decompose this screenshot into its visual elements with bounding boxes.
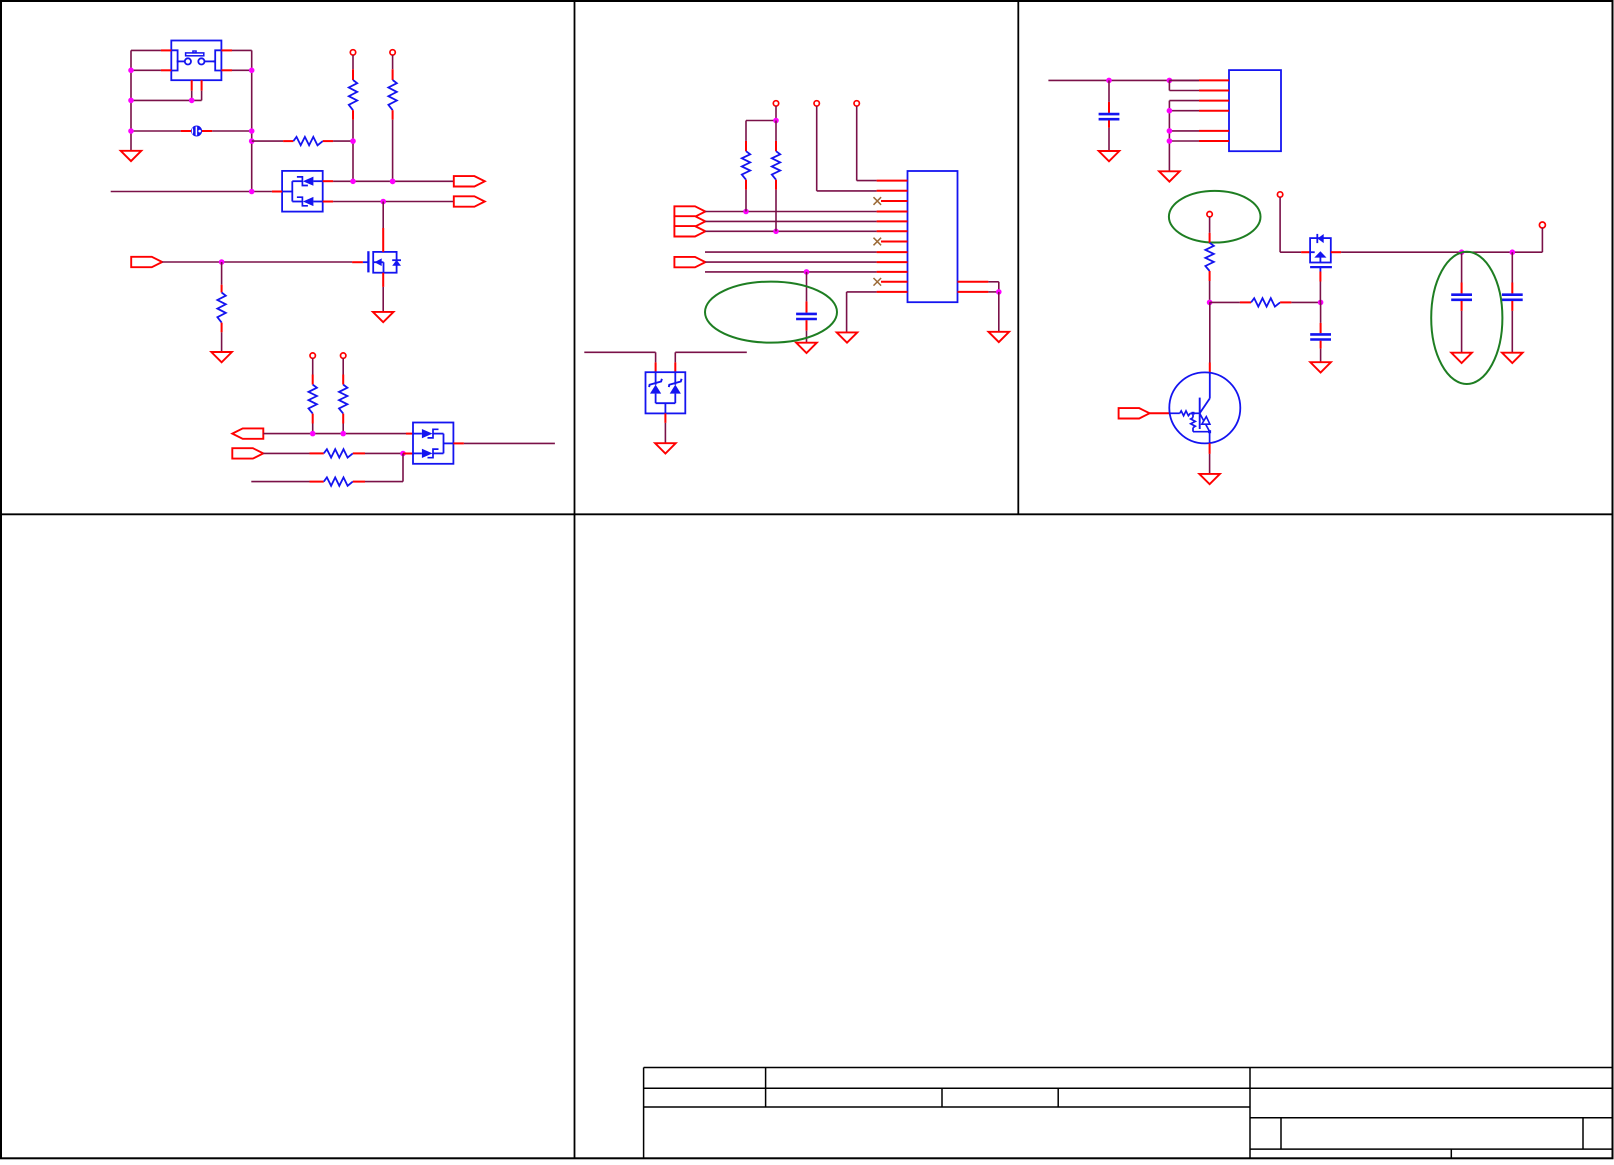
U2 left pins (877, 180, 908, 182)
port output B (454, 196, 485, 206)
wire net2 to U2 (817, 190, 877, 192)
wire Q2 out rail (1341, 251, 1542, 253)
port gate input (131, 257, 162, 267)
wire SW1 pin1 to left rail (131, 49, 161, 51)
junction (743, 209, 749, 215)
wire R8 left (251, 481, 309, 483)
port data1 (674, 206, 705, 216)
wire drop to R8 (402, 454, 404, 482)
ground (1502, 353, 1523, 363)
wire pin4 (1169, 110, 1199, 112)
capacitor C5 (1511, 252, 1513, 282)
wire net to D1 common (111, 191, 272, 193)
pin12 wire to ground (847, 291, 877, 293)
net port circle (1207, 212, 1212, 217)
dual zener diode D2 common-cathode (413, 423, 453, 464)
junction (249, 68, 255, 74)
net port circle (390, 50, 395, 55)
green highlight ellipse 3 (1431, 252, 1502, 384)
junction (1167, 128, 1173, 134)
junction (128, 98, 134, 104)
ground (1159, 171, 1180, 181)
junction (249, 128, 255, 134)
no-connect (874, 238, 882, 246)
no-connect (874, 197, 882, 205)
junction (1207, 300, 1213, 306)
junction (1167, 138, 1173, 144)
IC U3 (1229, 70, 1281, 151)
resistor R4 pull-down (221, 262, 223, 285)
junction (1167, 108, 1173, 114)
green highlight ellipse 2 (1169, 191, 1261, 243)
ground (837, 332, 858, 342)
junction (219, 259, 225, 265)
wire right rail vertical (251, 50, 253, 191)
junction (1167, 78, 1173, 84)
wire rail up to net (1541, 228, 1543, 253)
component B1 circle symbol (131, 130, 181, 132)
wire to R7 (263, 452, 309, 454)
junction (1510, 249, 1516, 255)
net port circle (350, 50, 355, 55)
net port circle (310, 353, 315, 358)
wire D3 right top (675, 351, 747, 353)
wire SW1 pin4 to right rail (232, 69, 252, 71)
wire R9 top jog (746, 120, 776, 122)
port data3 (674, 226, 705, 236)
wire D1 anode1 to port (333, 180, 454, 182)
junction (804, 269, 810, 275)
junction (350, 179, 356, 185)
junction (128, 68, 134, 74)
wire collector drop (1209, 302, 1211, 362)
net port circle (341, 353, 346, 358)
port data4 (674, 257, 705, 267)
title block tables (644, 1067, 1613, 1069)
wire data4 (705, 261, 876, 263)
net port circle (1277, 192, 1282, 197)
port data2 (674, 216, 705, 226)
junction (996, 289, 1002, 295)
junction (380, 199, 386, 205)
junction (1318, 300, 1324, 306)
ground (1310, 362, 1331, 372)
capacitor C4 (1451, 293, 1472, 296)
capacitor C4 (1461, 252, 1463, 282)
wire top rail (1048, 79, 1199, 81)
U2 right pins (958, 281, 989, 283)
wire SW1 pin2 to left rail (131, 69, 161, 71)
ground (1451, 353, 1472, 363)
wire left rail vertical (130, 50, 132, 150)
wire bus vertical (1168, 101, 1170, 171)
capacitor C5 (1502, 293, 1523, 296)
wire to D2 upper (263, 433, 406, 435)
wire pin6 (1169, 140, 1199, 142)
U3 wires (1169, 79, 1199, 81)
junction (1106, 78, 1112, 84)
junction (249, 189, 255, 195)
junction (249, 138, 255, 144)
wire net row4 (705, 251, 877, 253)
ground (1199, 474, 1220, 484)
port output A (454, 176, 485, 186)
wire SW1 pin6 drop (201, 91, 203, 101)
capacitor C3 (1320, 302, 1322, 323)
capacitor C2 (1108, 80, 1110, 102)
junction (773, 229, 779, 235)
capacitor C1 (806, 272, 808, 302)
ground (373, 312, 394, 322)
wire data2 (705, 220, 876, 222)
wire SW1 pin5 drop (191, 91, 193, 101)
connector/IC U2 (908, 171, 958, 302)
wire net row6 (705, 271, 877, 273)
junction (1459, 249, 1465, 255)
wire to ground (998, 292, 1000, 332)
net port circle (814, 101, 819, 106)
ground (121, 151, 142, 161)
wire net2 drop (816, 106, 818, 191)
wire pin3 (1169, 100, 1199, 102)
wire pin5 (1169, 130, 1199, 132)
Q1 drain wire from above (382, 202, 384, 229)
wire Q2 gate drop (1319, 282, 1321, 303)
no-connect (874, 278, 882, 286)
D1 pins (272, 191, 282, 193)
push-button switch SW1 (171, 41, 221, 81)
wire D2 out (464, 442, 555, 444)
junction (390, 179, 396, 185)
green highlight ellipse 1 (705, 282, 837, 343)
D2 output pin (453, 442, 464, 444)
SW1 pins (161, 49, 171, 51)
resistor R3 horizontal (252, 140, 283, 142)
junction (350, 138, 356, 144)
junction (340, 431, 346, 437)
port input lower (232, 448, 263, 458)
wire D3 left top (584, 351, 655, 353)
wire bottom pins bus (131, 99, 202, 101)
ground (989, 332, 1010, 342)
resistor R7 horizontal (310, 452, 324, 454)
wire gate (162, 261, 352, 263)
ground (655, 443, 676, 453)
junction (128, 128, 134, 134)
net port circle (854, 101, 859, 106)
wire data1 (705, 211, 876, 213)
section divider vertical left (574, 1, 576, 1158)
ground (796, 343, 817, 353)
junction (390, 179, 396, 185)
ground (211, 352, 232, 362)
wire SW1 pin3 to right rail (232, 49, 252, 51)
dual zener diode D1 common-cathode (282, 171, 323, 212)
wire right pin jog (988, 281, 998, 283)
section divider horizontal (1, 513, 1613, 515)
junction (189, 98, 195, 104)
wire net3 to U2 (857, 180, 877, 182)
resistor R12 horizontal (1210, 301, 1240, 303)
section divider vertical right (top half) (1017, 1, 1019, 514)
ground (1099, 151, 1120, 161)
junction (773, 118, 779, 124)
port base input (1119, 408, 1150, 418)
wire data3 (705, 230, 876, 232)
wire Q2 left drop (1279, 197, 1281, 252)
junction (310, 431, 316, 437)
N-MOSFET Q1 (352, 261, 363, 263)
capacitor C2 (1099, 113, 1120, 116)
net port circle (773, 101, 778, 106)
net port circle (1539, 222, 1545, 228)
capacitor C3 (1310, 333, 1331, 336)
wire jog pin2 (1168, 80, 1170, 90)
wire D1 anode2 to port (333, 201, 454, 203)
wire net3 drop (856, 106, 858, 181)
port bidir left (232, 428, 263, 438)
junction (400, 451, 406, 457)
capacitor C1 (796, 313, 817, 316)
